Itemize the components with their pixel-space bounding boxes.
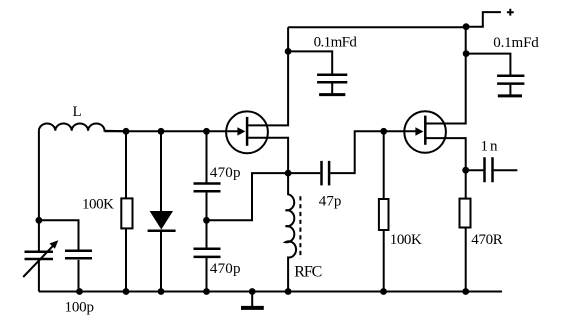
- resistor 470R: body: [460, 199, 471, 228]
- capacitor 1n: plates: [485, 157, 493, 182]
- wire: left vertical below var-cap to ground rail: [38, 260, 40, 292]
- diode D1: cathode bar: [148, 230, 176, 233]
- capacitor 470p (lower): plates: [194, 249, 221, 257]
- node: FET2 gate junction: [380, 128, 387, 135]
- FET Q1 drain wire: [248, 27, 288, 125]
- capacitor 100p variable: arrow: [23, 245, 54, 277]
- capacitor 470p (upper): plates: [194, 184, 221, 192]
- wire: top gate bus from inductor to FET1 gate arrow: [105, 130, 238, 132]
- node: rail 470R: [462, 288, 469, 295]
- diode D1: bottom lead: [160, 231, 162, 292]
- op FET Q1 circle: [226, 111, 268, 153]
- resistor 100K (second): body: [379, 199, 389, 230]
- capacitor 470p (upper): top lead: [206, 131, 208, 182]
- FET Q1 channel bar: [246, 117, 249, 146]
- capacitor 47p: plates: [322, 161, 330, 186]
- svg-text:0.1mFd: 0.1mFd: [314, 35, 358, 51]
- node: rail 470p: [203, 288, 210, 295]
- node: rail to 0.1mFd (first): [285, 48, 292, 55]
- node: rail RFC: [285, 288, 292, 295]
- RFC dashed core line: [299, 196, 301, 259]
- resistor 470R: top lead: [465, 170, 467, 198]
- svg-text:L: L: [73, 104, 82, 120]
- wire: 47p to FET2 gate: [330, 131, 415, 173]
- FET Q1 source wire: [248, 138, 288, 173]
- wire: left vertical (tank top to var-cap): [38, 131, 40, 251]
- capacitor 0.1mFd (second): wire from rail node: [466, 54, 510, 75]
- wire: fixed cap bottom lead: [78, 260, 80, 292]
- node: rail ground: [249, 288, 256, 295]
- node: rail 100K second: [380, 288, 387, 295]
- plus sign: [507, 9, 514, 16]
- resistor 100K (second): top lead: [383, 131, 385, 199]
- node: diode junction: [158, 128, 165, 135]
- capacitor 47p: left wire: [288, 172, 320, 174]
- FET Q2 channel bar: [424, 116, 427, 145]
- capacitor 1n: output stub: [494, 169, 518, 171]
- node: inductor/100K junction: [123, 128, 130, 135]
- FET Q2 drain wire: [427, 27, 466, 124]
- svg-text:47p: 47p: [319, 193, 342, 209]
- svg-text:RFC: RFC: [294, 264, 322, 281]
- node: 470p midpoint: [203, 217, 210, 224]
- capacitor 0.1mFd (first): wire from rail node: [288, 51, 332, 73]
- resistor 100K (second): bottom lead: [383, 230, 385, 292]
- capacitor C 100p variable: plates: [25, 252, 54, 259]
- node: rail diode: [158, 288, 165, 295]
- resistor 100K (first): bottom lead: [125, 228, 127, 291]
- diode D1: triangle: [150, 211, 173, 230]
- resistor 470R: bottom lead: [465, 228, 467, 292]
- capacitor 0.1mFd (second): plates: [497, 76, 524, 84]
- ground symbol on rail: [251, 292, 253, 307]
- FET Q2 source wire: [427, 138, 466, 170]
- svg-text:470R: 470R: [471, 232, 503, 248]
- wire: junction branch to fixed 100p section: [39, 220, 79, 250]
- node: 470p junction: [203, 128, 210, 135]
- svg-text:470p: 470p: [210, 165, 241, 181]
- svg-text:100p: 100p: [65, 300, 95, 316]
- svg-text:0.1mFd: 0.1mFd: [493, 35, 539, 51]
- inductor RFC: [286, 173, 297, 291]
- node: rail 100K: [123, 288, 130, 295]
- FET Q2 gate arrow: [415, 127, 423, 135]
- node: FET1 source / RFC / 47p: [285, 170, 292, 177]
- svg-text:1n: 1n: [481, 138, 499, 154]
- node: rail to 0.1mFd (second): [463, 50, 470, 57]
- capacitor fixed section plates: [65, 251, 92, 258]
- capacitor 470p (lower): bottom lead: [206, 258, 208, 292]
- capacitor 1n: left wire: [466, 169, 484, 171]
- top supply rail: [288, 26, 466, 28]
- bottom ground rail: [39, 291, 502, 293]
- svg-text:470p: 470p: [210, 261, 241, 277]
- inductor L: [39, 124, 126, 132]
- FET Q1 gate arrow: [237, 127, 245, 135]
- ground below first 0.1mFd: [331, 84, 333, 94]
- op FET Q2 circle: [404, 111, 446, 153]
- node: top rail right corner: [463, 23, 470, 30]
- resistor 100K (first): body: [121, 198, 132, 228]
- capacitor 0.1mFd (first): plates: [317, 75, 347, 83]
- ground below second 0.1mFd: [509, 85, 511, 95]
- diode D1: top lead: [160, 131, 162, 211]
- node: var-cap junction: [36, 217, 43, 224]
- svg-text:100K: 100K: [82, 197, 114, 213]
- wire: between 470p caps: [206, 192, 208, 247]
- svg-text:100K: 100K: [390, 232, 422, 248]
- plus terminal stub: [466, 12, 501, 27]
- node: FET2 source / 1n / 470R: [462, 167, 469, 174]
- node: rail 100p: [76, 288, 83, 295]
- resistor 100K (first): top lead: [125, 131, 127, 198]
- wire: 470p midpoint to FET1 source node: [207, 173, 289, 220]
